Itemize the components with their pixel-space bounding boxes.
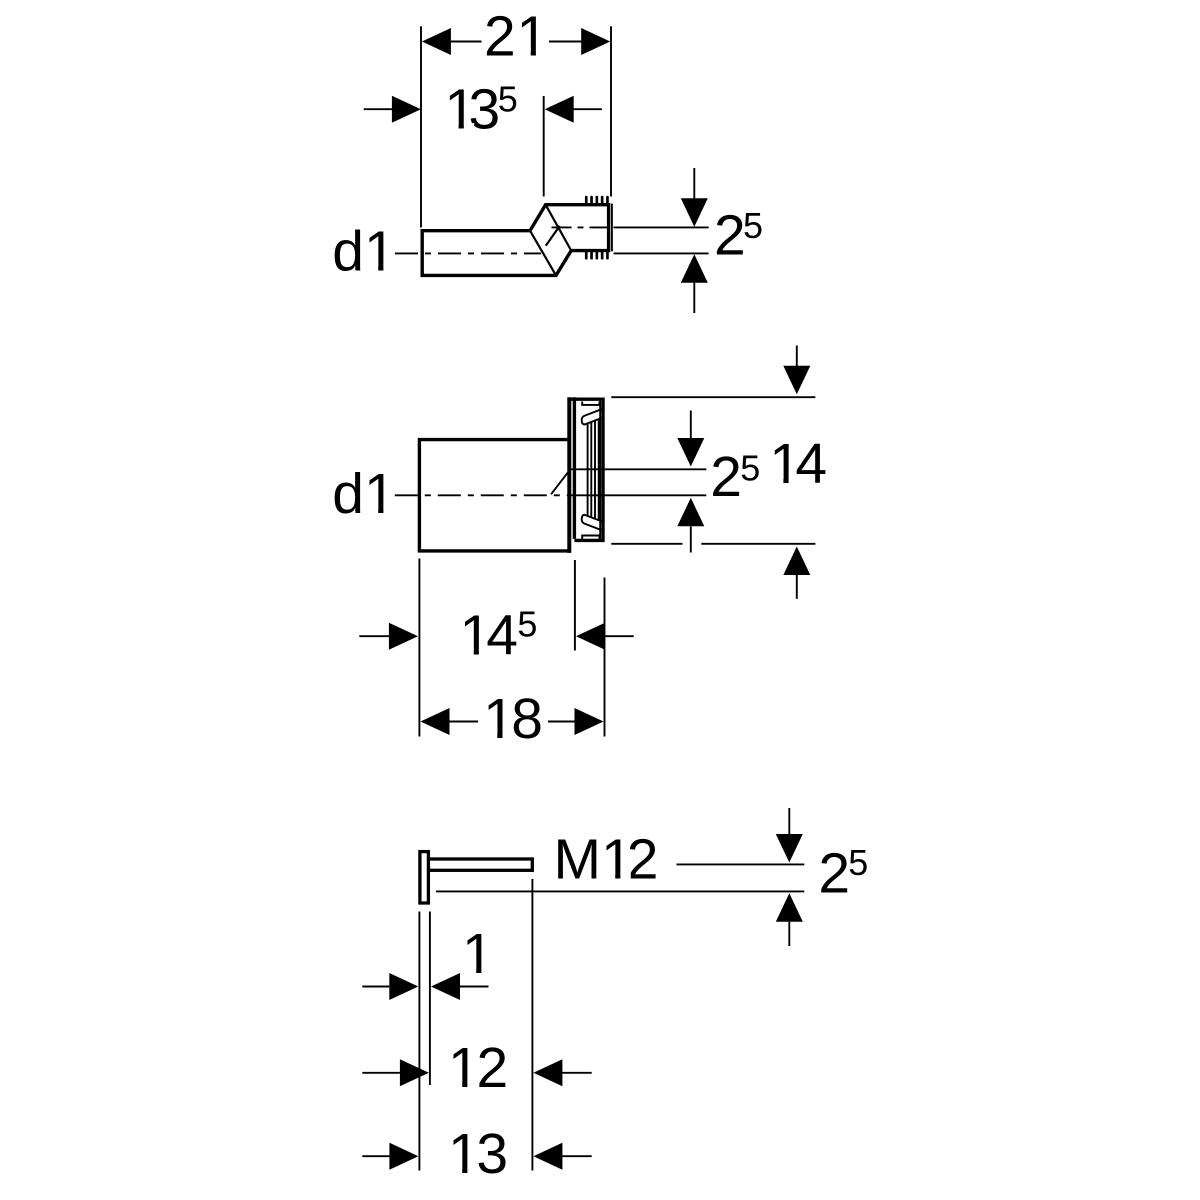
elbow cross tick view1 <box>546 226 560 246</box>
serif-foot masks for digit 1 <box>368 50 799 1175</box>
extension line bottom view2 <box>611 543 815 545</box>
seal top edges view2 <box>582 409 602 424</box>
dimension 1 view3 <box>362 922 493 1000</box>
dimension 18 view2 <box>421 687 604 751</box>
reference line view3 <box>436 890 804 892</box>
extension line mid view1 <box>543 96 545 197</box>
seal ridge lines view2 <box>588 419 599 520</box>
svg-text:2: 2 <box>627 828 659 892</box>
label d1 view2 <box>332 462 395 526</box>
svg-text:5: 5 <box>740 447 760 488</box>
extension line shaft-end view3 <box>531 879 533 1171</box>
dimension 13 view3 <box>362 1122 591 1186</box>
ribs top view1 <box>585 196 609 204</box>
dimension 12 view3 <box>362 1036 591 1100</box>
dimension 2.5 view1 <box>614 168 764 313</box>
svg-text:M: M <box>554 828 601 892</box>
flange bottom notch view2 <box>582 536 599 539</box>
svg-text:3: 3 <box>476 1122 508 1186</box>
extension line head-right view3 <box>429 912 431 1086</box>
svg-text:1: 1 <box>462 922 494 986</box>
svg-text:5: 5 <box>848 842 868 883</box>
dimension 21 view1 <box>422 5 610 69</box>
end cap inner line view1 <box>611 204 613 252</box>
svg-text:5: 5 <box>498 79 518 120</box>
pipe outline view1 <box>422 205 608 276</box>
svg-text:1: 1 <box>448 1036 480 1100</box>
svg-text:1: 1 <box>448 1122 480 1186</box>
svg-text:8: 8 <box>511 687 543 751</box>
centerline upper view1 <box>552 226 613 228</box>
extension line top view2 <box>611 396 815 398</box>
svg-text:3: 3 <box>469 78 501 142</box>
svg-text:5: 5 <box>743 205 763 246</box>
flange outline view2 <box>568 398 605 541</box>
stud axis line view3 <box>677 863 805 865</box>
label M12 view3 <box>554 828 659 892</box>
dimension 14 vertical view2 <box>769 346 827 599</box>
dimension 2.5 view3 <box>776 808 868 946</box>
svg-text:5: 5 <box>517 604 537 645</box>
svg-text:2: 2 <box>484 5 516 69</box>
extension line head-left view3 <box>418 912 420 1171</box>
centerline extension solid view2 <box>567 494 706 496</box>
svg-text:4: 4 <box>486 604 518 668</box>
svg-text:2: 2 <box>710 445 742 509</box>
centerline d1 view2 <box>395 494 567 496</box>
flange top notch view2 <box>582 402 599 405</box>
svg-text:4: 4 <box>795 432 827 496</box>
stud shaft view3 <box>428 859 532 870</box>
elbow inner diagonal lower view1 <box>546 205 572 251</box>
ribs bottom view1 <box>585 252 609 260</box>
svg-text:d1: d1 <box>332 462 395 526</box>
svg-text:2: 2 <box>714 204 746 268</box>
extension line left view1 <box>420 26 422 227</box>
svg-text:1: 1 <box>517 5 549 69</box>
pipe outline view2 <box>419 440 568 551</box>
label d1 view1 <box>332 219 395 283</box>
svg-text:2: 2 <box>477 1036 509 1100</box>
dimension 13.5 view1 <box>364 78 602 142</box>
extension line right view2 <box>604 578 606 737</box>
svg-text:2: 2 <box>818 841 850 905</box>
flange inner right line view2 <box>599 401 601 539</box>
svg-text:d1: d1 <box>332 219 395 283</box>
elbow inner diagonal upper view1 <box>530 231 556 276</box>
stud head view3 <box>420 852 429 903</box>
dimension 14.5 view2 <box>359 604 633 668</box>
extension line right view1 <box>610 26 612 196</box>
dimension 2.5 view2 <box>677 411 760 553</box>
svg-text:1: 1 <box>483 687 515 751</box>
flange plate line B view2 <box>573 397 576 539</box>
centerline d1 lower view1 <box>395 252 541 254</box>
extension line mid view2 <box>574 560 576 651</box>
extension line left view2 <box>418 559 420 737</box>
flange plate line A view2 <box>567 397 571 553</box>
flange axis leader view2 <box>551 469 706 494</box>
seal bottom edges view2 <box>582 515 602 530</box>
